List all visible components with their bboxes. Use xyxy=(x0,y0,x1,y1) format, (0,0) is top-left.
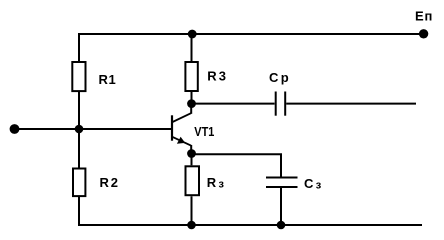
node input terminal xyxy=(10,124,20,134)
wire input to base xyxy=(15,128,172,130)
node Rз bottom junction xyxy=(187,221,196,230)
wire collector to Cp xyxy=(192,103,275,105)
node C3 bottom junction xyxy=(277,221,286,230)
svg-text:R3: R3 xyxy=(207,69,228,84)
wire bottom rail xyxy=(78,224,422,226)
resistor R1 xyxy=(72,62,85,91)
node emitter junction xyxy=(187,149,196,158)
resistor R2 xyxy=(73,169,85,197)
wire R3 to collector node xyxy=(191,92,193,104)
resistor R3 xyxy=(185,62,197,91)
node base junction xyxy=(75,125,84,134)
wire emitter to C3 branch xyxy=(192,154,282,177)
wire base node to R2 xyxy=(78,129,80,168)
svg-text:Eп: Eп xyxy=(415,8,433,23)
wire top rail to R3 xyxy=(191,34,193,61)
wire C3 to bottom rail xyxy=(280,187,282,225)
wire top rail xyxy=(78,33,424,35)
svg-text:R1: R1 xyxy=(99,72,117,87)
node collector junction xyxy=(187,99,196,108)
wire R2 to bottom rail xyxy=(78,197,80,226)
capacitor Cз xyxy=(266,176,322,192)
svg-text:Cp: Cp xyxy=(269,70,291,85)
svg-text:VT1: VT1 xyxy=(194,124,214,139)
wire Rз to bottom rail xyxy=(191,196,193,225)
node R3 top junction xyxy=(188,30,197,39)
svg-text:R2: R2 xyxy=(100,175,120,190)
transistor VT1 xyxy=(172,104,214,154)
wire left branch top xyxy=(78,33,80,61)
node Eп terminal xyxy=(419,29,428,38)
wire R1 to base node xyxy=(78,92,80,129)
capacitor Cp xyxy=(269,70,291,116)
wire emitter to Rз xyxy=(191,154,193,166)
wire Cp to output xyxy=(286,103,416,105)
resistor Rз xyxy=(186,166,200,195)
